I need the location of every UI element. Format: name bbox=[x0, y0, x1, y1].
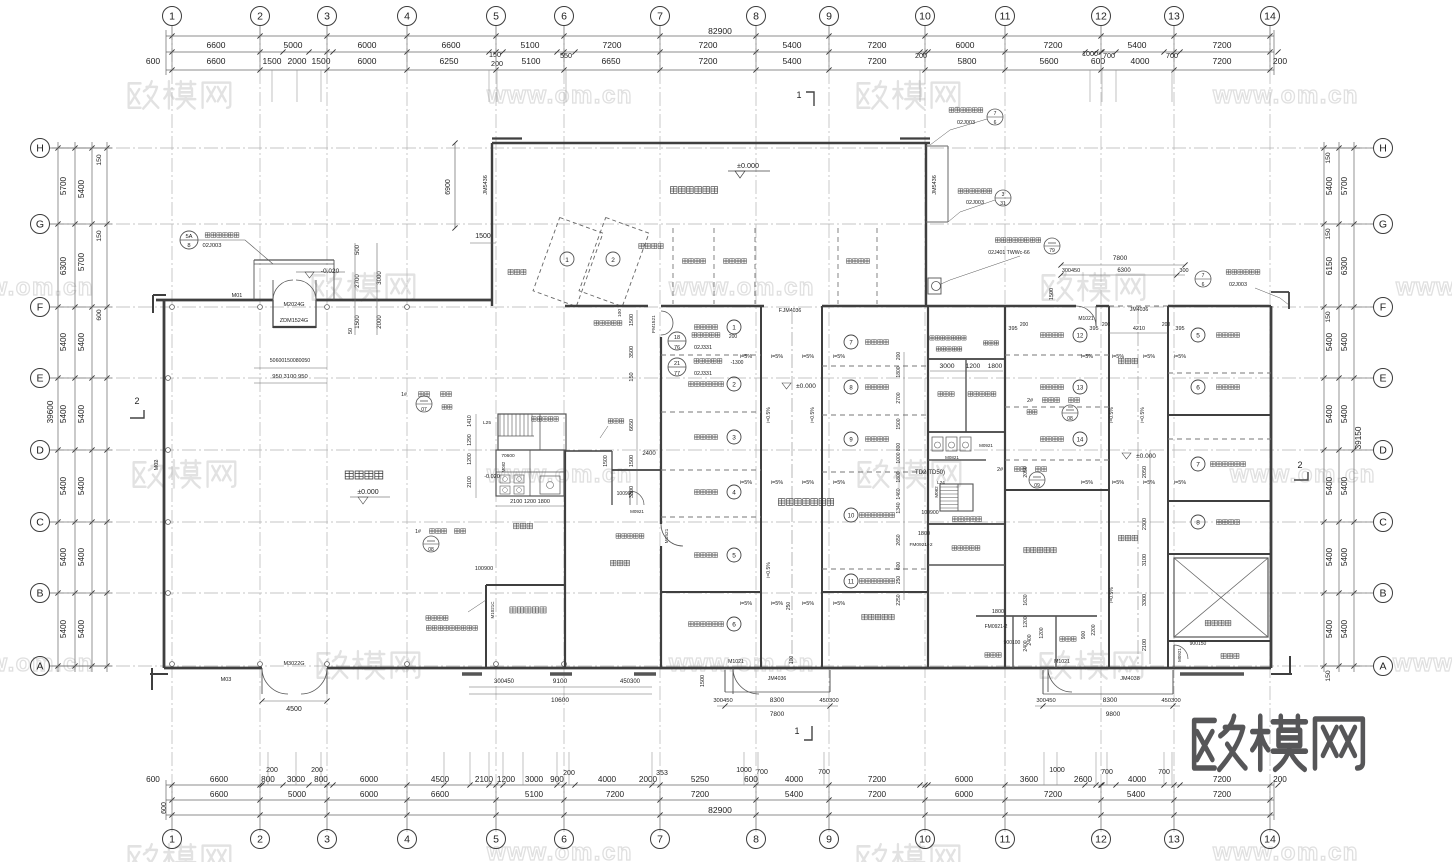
axis bubble H right bbox=[1320, 147, 1373, 149]
svg-text:353: 353 bbox=[656, 770, 668, 777]
svg-text:1800: 1800 bbox=[896, 366, 902, 377]
interior wall x661 bbox=[660, 337, 662, 524]
svg-text:50: 50 bbox=[348, 328, 354, 334]
svg-text:M082: M082 bbox=[501, 461, 506, 472]
svg-text:www.om.cn: www.om.cn bbox=[0, 274, 94, 301]
svg-text:10: 10 bbox=[919, 11, 931, 23]
stair2 bbox=[940, 484, 973, 511]
svg-text:4000: 4000 bbox=[785, 775, 804, 784]
svg-text:2000: 2000 bbox=[377, 315, 383, 329]
svg-text:6650: 6650 bbox=[629, 419, 635, 431]
svg-text:1: 1 bbox=[565, 257, 569, 264]
svg-text:M1021: M1021 bbox=[728, 659, 744, 665]
showroom entrance doors M3022G bbox=[262, 668, 288, 694]
svg-text:300450: 300450 bbox=[494, 679, 515, 685]
svg-text:5400: 5400 bbox=[77, 332, 86, 351]
toilet2 fixtures bbox=[932, 437, 943, 451]
svg-text:5600: 5600 bbox=[1040, 56, 1059, 66]
svg-text:M0921: M0921 bbox=[630, 509, 644, 514]
svg-text:JM4038: JM4038 bbox=[1120, 676, 1140, 682]
svg-text:5800: 5800 bbox=[958, 56, 977, 66]
svg-text:5700: 5700 bbox=[59, 176, 68, 195]
svg-text:C: C bbox=[1379, 517, 1387, 529]
svg-text:i=0.5%: i=0.5% bbox=[766, 407, 772, 423]
pump room strip bbox=[1168, 640, 1271, 642]
svg-text:±0.000: ±0.000 bbox=[796, 383, 816, 390]
entrance door M2024G bbox=[273, 280, 293, 300]
svg-text:5400: 5400 bbox=[1325, 332, 1334, 351]
svg-text:M0921: M0921 bbox=[1177, 648, 1182, 662]
svg-text:H: H bbox=[1379, 143, 1387, 155]
svg-text:150: 150 bbox=[1325, 228, 1332, 240]
svg-text:i=5%: i=5% bbox=[1143, 354, 1155, 360]
svg-text:500: 500 bbox=[355, 244, 361, 255]
svg-text:4000: 4000 bbox=[598, 775, 617, 784]
axis bubble 12 top bbox=[1100, 26, 1102, 70]
svg-text:02J401 TWWc-66: 02J401 TWWc-66 bbox=[988, 250, 1030, 256]
svg-text:150: 150 bbox=[1325, 311, 1332, 323]
svg-text:G: G bbox=[36, 219, 44, 231]
dims 7800 6300 bbox=[1061, 264, 1185, 266]
svg-text:2100: 2100 bbox=[467, 476, 473, 488]
svg-text:5400: 5400 bbox=[1325, 176, 1334, 195]
svg-text:M3022G: M3022G bbox=[283, 661, 304, 667]
svg-text:1200: 1200 bbox=[497, 775, 516, 784]
svg-text:2650: 2650 bbox=[896, 534, 902, 545]
south dims 7800 bbox=[717, 705, 838, 707]
svg-text:700: 700 bbox=[1166, 51, 1178, 60]
svg-text:02J331: 02J331 bbox=[694, 371, 712, 377]
svg-text:6300: 6300 bbox=[1340, 256, 1349, 275]
svg-text:i=5%: i=5% bbox=[833, 601, 845, 607]
svg-text:i=5%: i=5% bbox=[1143, 480, 1155, 486]
svg-text:7200: 7200 bbox=[691, 790, 710, 799]
svg-text:2: 2 bbox=[257, 834, 263, 846]
svg-text:5A: 5A bbox=[185, 234, 192, 240]
axis bubble E right bbox=[1320, 377, 1373, 379]
svg-text:70600: 70600 bbox=[501, 453, 515, 459]
axis bubble 1 bottom bbox=[171, 785, 173, 829]
power room bbox=[976, 615, 1097, 617]
svg-text:450300: 450300 bbox=[620, 679, 641, 685]
svg-text:14: 14 bbox=[1264, 834, 1276, 846]
svg-text:79: 79 bbox=[1049, 248, 1055, 254]
svg-text:900: 900 bbox=[1081, 631, 1087, 640]
svg-text:8: 8 bbox=[1196, 520, 1200, 527]
annotation leaders top right bbox=[987, 109, 1003, 125]
svg-text:100900: 100900 bbox=[475, 566, 493, 572]
svg-text:6600: 6600 bbox=[210, 775, 229, 784]
svg-text:18: 18 bbox=[674, 335, 680, 341]
entrance vestibule bbox=[272, 300, 274, 328]
corridor exit doors bbox=[733, 668, 759, 694]
svg-text:-1300: -1300 bbox=[731, 360, 744, 366]
svg-text:4: 4 bbox=[404, 11, 410, 23]
axis bubble B right bbox=[1320, 592, 1373, 594]
glass wall note bbox=[426, 616, 448, 621]
svg-text:JM4036: JM4036 bbox=[1130, 307, 1149, 313]
svg-text:6000: 6000 bbox=[955, 775, 974, 784]
svg-text:7800: 7800 bbox=[770, 711, 785, 718]
svg-text:5400: 5400 bbox=[1340, 332, 1349, 351]
svg-text:M02: M02 bbox=[154, 460, 160, 471]
axis bubble F left bbox=[50, 306, 112, 308]
svg-text:D: D bbox=[1379, 445, 1387, 457]
svg-text:82900: 82900 bbox=[708, 805, 732, 815]
svg-text:395: 395 bbox=[1089, 326, 1098, 332]
svg-text:7200: 7200 bbox=[603, 40, 622, 50]
axis bubble 14 top bbox=[1269, 26, 1271, 70]
south apron right bbox=[1042, 670, 1044, 694]
svg-text:600: 600 bbox=[146, 56, 160, 66]
svg-text:1000: 1000 bbox=[896, 452, 902, 463]
svg-text:2700: 2700 bbox=[896, 392, 902, 403]
svg-text:6: 6 bbox=[1202, 282, 1205, 288]
NE corner step bbox=[1271, 291, 1289, 293]
svg-text:12: 12 bbox=[1095, 11, 1107, 23]
svg-text:2300: 2300 bbox=[1142, 518, 1148, 530]
axis bubble 4 top bbox=[406, 26, 408, 70]
mid-right service block walls bbox=[928, 358, 1005, 360]
svg-text:200: 200 bbox=[1162, 322, 1171, 328]
axis bubble 13 bottom bbox=[1173, 785, 1175, 829]
axis bubble 1 top bbox=[171, 26, 173, 70]
svg-text:5400: 5400 bbox=[1340, 404, 1349, 423]
svg-text:M1521: M1521 bbox=[664, 528, 670, 543]
top chain drop extension lines bbox=[271, 70, 273, 102]
axis bubble E left bbox=[50, 377, 112, 379]
bay partitions column1 bbox=[661, 354, 761, 356]
axis bubble 6 top bbox=[563, 26, 565, 70]
F-axis wall west portion bbox=[156, 299, 273, 302]
west outer wall M02 bbox=[163, 300, 166, 668]
svg-text:3000: 3000 bbox=[939, 363, 954, 370]
dim 4500 below entrance bbox=[262, 700, 327, 702]
svg-text:7200: 7200 bbox=[606, 790, 625, 799]
axis bubble 7 top bbox=[659, 26, 661, 70]
svg-text:150: 150 bbox=[629, 372, 635, 381]
svg-text:2100: 2100 bbox=[1142, 639, 1148, 651]
svg-text:5400: 5400 bbox=[59, 404, 68, 423]
svg-text:A: A bbox=[1379, 661, 1386, 673]
svg-text:6: 6 bbox=[561, 11, 567, 23]
svg-text:250: 250 bbox=[896, 576, 902, 585]
axis bubble 5 bottom bbox=[495, 785, 497, 829]
svg-text:1200: 1200 bbox=[966, 363, 981, 370]
svg-text:1500: 1500 bbox=[312, 56, 331, 66]
svg-text:M2024G: M2024G bbox=[283, 302, 304, 308]
svg-text:6: 6 bbox=[732, 622, 736, 629]
svg-text:5400: 5400 bbox=[1325, 547, 1334, 566]
interior wall x928 bbox=[927, 306, 929, 668]
door M1521 in x661 wall bbox=[661, 524, 683, 546]
svg-text:8300: 8300 bbox=[1103, 697, 1118, 704]
svg-text:4: 4 bbox=[732, 490, 736, 497]
service block labels bbox=[930, 336, 966, 340]
svg-text:10600: 10600 bbox=[551, 697, 569, 704]
svg-text:M1021C: M1021C bbox=[490, 601, 495, 619]
svg-text:5100: 5100 bbox=[521, 40, 540, 50]
svg-text:8: 8 bbox=[187, 243, 190, 249]
svg-text:www.om.cn: www.om.cn bbox=[486, 82, 633, 109]
wall y451 parts room top bbox=[565, 450, 612, 452]
svg-text:F: F bbox=[37, 302, 43, 314]
svg-text:5400: 5400 bbox=[77, 547, 86, 566]
svg-text:600: 600 bbox=[146, 775, 160, 784]
svg-text:-0.020: -0.020 bbox=[321, 268, 340, 275]
axis bubble C left bbox=[50, 521, 112, 523]
svg-text:3300: 3300 bbox=[629, 486, 635, 498]
door M1021 in F wall bbox=[1076, 306, 1096, 326]
svg-text:www.om.cn: www.om.cn bbox=[1212, 839, 1359, 862]
svg-text:5400: 5400 bbox=[783, 40, 802, 50]
interior dim column x1150 bbox=[1149, 450, 1151, 664]
svg-text:6000: 6000 bbox=[955, 790, 974, 799]
svg-text:E: E bbox=[36, 373, 43, 385]
svg-text:21: 21 bbox=[674, 361, 680, 367]
fire door FM1521 bbox=[661, 311, 673, 323]
svg-text:www.om.cn: www.om.cn bbox=[486, 461, 633, 488]
column dots on walls bbox=[170, 305, 175, 310]
corridor2 labels bbox=[1119, 358, 1138, 364]
svg-text:±0.000: ±0.000 bbox=[357, 489, 378, 496]
svg-text:5400: 5400 bbox=[785, 790, 804, 799]
svg-text:i=0.5%: i=0.5% bbox=[810, 407, 816, 423]
svg-text:1200: 1200 bbox=[467, 453, 473, 465]
axis bubble 3 bottom bbox=[326, 785, 328, 829]
svg-text:2: 2 bbox=[1297, 460, 1302, 470]
svg-text:100900: 100900 bbox=[921, 510, 938, 516]
toilet1 block bbox=[496, 450, 564, 496]
svg-text:550: 550 bbox=[560, 51, 572, 60]
svg-text:6000: 6000 bbox=[358, 56, 377, 66]
svg-text:5400: 5400 bbox=[1340, 547, 1349, 566]
axis bubble 2 bottom bbox=[259, 785, 261, 829]
axis bubble D left bbox=[50, 449, 112, 451]
svg-text:1340: 1340 bbox=[896, 502, 902, 513]
svg-text:150: 150 bbox=[96, 154, 103, 166]
svg-text:5400: 5400 bbox=[59, 547, 68, 566]
svg-text:600: 600 bbox=[744, 775, 758, 784]
axis bubble 13 top bbox=[1173, 26, 1175, 70]
svg-text:1500: 1500 bbox=[629, 455, 635, 467]
svg-text:6600: 6600 bbox=[442, 40, 461, 50]
svg-text:M0821: M0821 bbox=[945, 455, 959, 460]
svg-text:4210: 4210 bbox=[1133, 326, 1145, 332]
svg-text:B: B bbox=[36, 588, 43, 600]
svg-text:JM4036: JM4036 bbox=[768, 676, 787, 682]
svg-text:6000: 6000 bbox=[360, 775, 379, 784]
axis bubble 10 top bbox=[924, 26, 926, 70]
svg-text:2250: 2250 bbox=[896, 594, 902, 605]
svg-text:5400: 5400 bbox=[1340, 476, 1349, 495]
svg-text:5400: 5400 bbox=[77, 619, 86, 638]
svg-text:7200: 7200 bbox=[1213, 56, 1232, 66]
axis bubble G right bbox=[1320, 223, 1373, 225]
wash bay dashed stalls bbox=[533, 217, 603, 306]
axis bubble A left bbox=[50, 665, 112, 667]
label repair reception area bbox=[670, 187, 717, 194]
svg-text:300: 300 bbox=[1179, 268, 1188, 274]
svg-text:6150: 6150 bbox=[1325, 256, 1334, 275]
svg-text:1000: 1000 bbox=[1082, 49, 1098, 58]
svg-text:9: 9 bbox=[826, 11, 832, 23]
svg-text:±0.000: ±0.000 bbox=[1136, 453, 1156, 460]
SW corner wrap bbox=[150, 673, 168, 675]
svg-text:1290: 1290 bbox=[467, 434, 473, 446]
corridor2 west wall x1109 bbox=[1108, 306, 1110, 668]
svg-text:5400: 5400 bbox=[783, 56, 802, 66]
axis bubble B left bbox=[50, 592, 112, 594]
svg-text:i=5%: i=5% bbox=[1081, 480, 1093, 486]
interior wall x565 bbox=[564, 450, 566, 668]
svg-text:6650: 6650 bbox=[602, 56, 621, 66]
svg-text:M0921: M0921 bbox=[979, 443, 993, 448]
svg-text:7200: 7200 bbox=[699, 40, 718, 50]
svg-text:3: 3 bbox=[324, 11, 330, 23]
svg-text:02J003: 02J003 bbox=[966, 200, 984, 206]
svg-text:3: 3 bbox=[324, 834, 330, 846]
svg-text:M03: M03 bbox=[221, 677, 232, 683]
body storage room bbox=[1024, 547, 1056, 553]
svg-text:5100: 5100 bbox=[522, 56, 541, 66]
svg-text:5400: 5400 bbox=[59, 619, 68, 638]
svg-text:3000: 3000 bbox=[377, 271, 383, 285]
svg-text:7200: 7200 bbox=[868, 790, 887, 799]
svg-text:2#: 2# bbox=[997, 467, 1004, 473]
svg-text:1800: 1800 bbox=[992, 609, 1004, 615]
svg-text:13: 13 bbox=[1168, 834, 1180, 846]
svg-text:2700: 2700 bbox=[355, 274, 361, 288]
porch slabs on south side bbox=[462, 672, 482, 676]
svg-text:200: 200 bbox=[1020, 322, 1029, 328]
svg-text:FM1521: FM1521 bbox=[651, 315, 657, 333]
svg-text:200: 200 bbox=[1102, 322, 1111, 328]
svg-text:3000: 3000 bbox=[525, 775, 544, 784]
west corner pilaster bbox=[153, 294, 166, 296]
svg-text:7: 7 bbox=[1202, 273, 1205, 279]
svg-text:5400: 5400 bbox=[1128, 40, 1147, 50]
svg-text:i=0.5%: i=0.5% bbox=[1109, 587, 1115, 603]
stair1 block bbox=[498, 414, 566, 450]
svg-text:02J003: 02J003 bbox=[1229, 282, 1247, 288]
svg-text:300450: 300450 bbox=[1062, 268, 1080, 274]
svg-text:2: 2 bbox=[732, 382, 736, 389]
svg-text:www.om.cn: www.om.cn bbox=[486, 839, 633, 862]
axis bubble H left bbox=[50, 147, 112, 149]
svg-text:1: 1 bbox=[794, 726, 799, 736]
svg-text:5100: 5100 bbox=[525, 790, 544, 799]
svg-text:1410: 1410 bbox=[467, 415, 473, 427]
svg-text:150: 150 bbox=[489, 50, 501, 59]
svg-text:6300: 6300 bbox=[1117, 268, 1131, 274]
svg-text:7200: 7200 bbox=[868, 40, 887, 50]
svg-text:600: 600 bbox=[161, 802, 168, 814]
svg-text:5: 5 bbox=[493, 11, 499, 23]
svg-text:M01: M01 bbox=[232, 293, 243, 299]
svg-text:2: 2 bbox=[134, 396, 139, 406]
svg-text:3300: 3300 bbox=[1142, 594, 1148, 606]
axis bubble 2 top bbox=[259, 26, 261, 70]
svg-text:11: 11 bbox=[1000, 834, 1011, 846]
svg-text:6: 6 bbox=[561, 834, 567, 846]
svg-text:8: 8 bbox=[753, 11, 759, 23]
svg-text:i=5%: i=5% bbox=[1112, 480, 1124, 486]
svg-text:3: 3 bbox=[1002, 192, 1005, 198]
svg-text:300450: 300450 bbox=[713, 698, 732, 704]
F-axis wall interior segments bbox=[565, 305, 648, 307]
axis bubble 9 top bbox=[828, 26, 830, 70]
svg-text:02J331: 02J331 bbox=[694, 345, 712, 351]
svg-text:900150: 900150 bbox=[1190, 641, 1207, 647]
svg-text:14: 14 bbox=[1077, 438, 1084, 444]
svg-text:4500: 4500 bbox=[286, 706, 302, 713]
svg-text:i=5%: i=5% bbox=[802, 354, 814, 360]
bay partitions column3 bbox=[1005, 354, 1109, 356]
svg-text:5400: 5400 bbox=[1325, 619, 1334, 638]
svg-text:5400: 5400 bbox=[77, 476, 86, 495]
work bay labels column2 bbox=[844, 335, 858, 349]
svg-text:-0.020: -0.020 bbox=[484, 474, 500, 480]
svg-text:6: 6 bbox=[994, 120, 997, 126]
SE corner wrap bbox=[1271, 673, 1292, 675]
svg-text:www.om.cn: www.om.cn bbox=[1395, 274, 1452, 301]
interior dim column x904 bbox=[903, 352, 905, 600]
axis bubble 10 bottom bbox=[924, 785, 926, 829]
svg-text:1500: 1500 bbox=[700, 675, 706, 687]
right side leader 7/6 bbox=[1195, 271, 1211, 287]
svg-text:1500: 1500 bbox=[1049, 288, 1055, 300]
showroom label bbox=[345, 471, 383, 479]
svg-text:7800: 7800 bbox=[1113, 255, 1128, 262]
axis bubble 4 bottom bbox=[406, 785, 408, 829]
svg-text:6600: 6600 bbox=[431, 790, 450, 799]
svg-text:2400: 2400 bbox=[642, 451, 656, 457]
axis bubble A right bbox=[1320, 665, 1373, 667]
svg-text:800: 800 bbox=[896, 443, 902, 452]
svg-text:900100: 900100 bbox=[1004, 640, 1021, 646]
svg-text:08: 08 bbox=[428, 547, 434, 553]
svg-text:1#: 1# bbox=[415, 529, 421, 535]
svg-text:i=5%: i=5% bbox=[833, 354, 845, 360]
svg-text:200: 200 bbox=[1273, 56, 1287, 66]
svg-text:2: 2 bbox=[611, 257, 615, 264]
svg-text:8: 8 bbox=[753, 834, 759, 846]
area label mech repair bbox=[778, 499, 833, 506]
svg-text:6600: 6600 bbox=[207, 56, 226, 66]
svg-text:C: C bbox=[36, 517, 44, 529]
east outer wall bbox=[1270, 306, 1273, 668]
svg-text:5: 5 bbox=[493, 834, 499, 846]
svg-text:50600150080050: 50600150080050 bbox=[270, 358, 311, 364]
svg-text:08: 08 bbox=[1067, 416, 1073, 422]
svg-text:FM0921-2: FM0921-2 bbox=[985, 624, 1008, 630]
svg-text:5000: 5000 bbox=[288, 790, 307, 799]
axis bubble 8 bottom bbox=[755, 785, 757, 829]
svg-text:150: 150 bbox=[1325, 670, 1332, 682]
svg-text:150: 150 bbox=[96, 230, 103, 242]
svg-text:5400: 5400 bbox=[77, 404, 86, 423]
svg-text:100: 100 bbox=[617, 309, 623, 317]
corridor2 centreline bbox=[1137, 310, 1139, 664]
svg-text:950 3100 950: 950 3100 950 bbox=[272, 374, 307, 380]
svg-text:6900: 6900 bbox=[445, 179, 452, 195]
svg-text:11: 11 bbox=[848, 580, 855, 586]
svg-text:200: 200 bbox=[491, 59, 503, 68]
bottom chain riser extension lines bbox=[267, 752, 269, 785]
svg-text:ZDM1524G: ZDM1524G bbox=[280, 318, 308, 324]
svg-text:1500: 1500 bbox=[263, 56, 282, 66]
